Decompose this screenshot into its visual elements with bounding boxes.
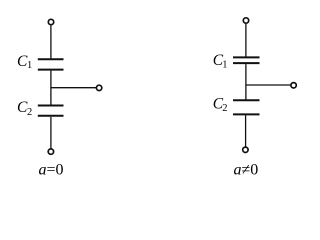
wire [50,25,52,58]
capacitor C1' bottom plate [233,62,260,64]
capacitor C2' bottom plate [233,113,260,115]
wire [245,115,247,146]
wire junction to output [51,87,96,89]
wire [245,24,247,57]
left circuit [38,19,102,154]
capacitor C2 top plate [38,105,64,107]
wire junction to output [246,84,291,86]
capacitor C1 bottom plate [38,69,64,71]
svg-text:1: 1 [27,60,32,71]
capacitor C1 top plate [38,58,64,60]
svg-text:a≠0: a≠0 [234,161,259,178]
terminal bottom-left [48,149,53,154]
svg-text:a=0: a=0 [39,161,64,178]
capacitor C2 bottom plate [38,115,64,117]
svg-text:2: 2 [222,103,227,114]
terminal mid-left output [96,85,101,90]
terminal bottom-right [243,147,248,152]
wire [245,64,247,99]
svg-text:1: 1 [222,60,227,71]
right circuit [233,18,296,153]
capacitor C2' top plate [233,99,260,101]
capacitor C1' top plate [233,56,260,58]
svg-text:2: 2 [27,107,32,118]
terminal top-left [48,19,53,24]
terminal top-right [243,18,248,23]
wire [50,71,52,105]
terminal mid-right output [291,83,296,88]
wire [50,117,52,149]
